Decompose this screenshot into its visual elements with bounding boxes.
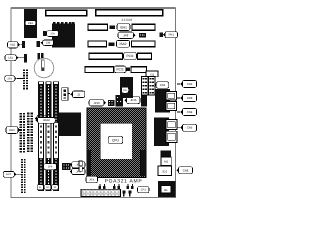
svg-text:U6: U6 xyxy=(123,89,127,92)
svg-text:PGA321 AMP: PGA321 AMP xyxy=(105,179,143,185)
leader HD1 xyxy=(19,129,22,131)
connector body CN4/CN5 xyxy=(154,118,169,147)
svg-text:JP6: JP6 xyxy=(48,166,53,169)
floppy header EXT1 xyxy=(21,159,26,193)
svg-text:ID1: ID1 xyxy=(162,169,167,173)
label PCI1 xyxy=(124,53,137,60)
crystal X1 xyxy=(37,53,40,60)
svg-text:KB2: KB2 xyxy=(10,44,15,47)
component D1 xyxy=(161,151,172,158)
svg-text:FN1: FN1 xyxy=(169,33,175,37)
label CN3 xyxy=(180,94,196,101)
svg-text:EXT: EXT xyxy=(6,173,11,176)
jumper JP16 block xyxy=(108,100,115,106)
svg-text:CN5: CN5 xyxy=(187,126,193,130)
leader LB1 xyxy=(19,57,25,59)
connector ID1 xyxy=(158,166,172,175)
port CN5 xyxy=(166,131,177,142)
svg-text:CN4: CN4 xyxy=(187,110,193,114)
label ISA1 xyxy=(117,24,130,31)
header J2 xyxy=(62,88,68,100)
label JP4 xyxy=(70,162,85,168)
pin header P1 xyxy=(23,70,28,90)
svg-text:M1: M1 xyxy=(164,160,168,164)
svg-text:LB1: LB1 xyxy=(8,57,13,60)
PCI slot row 1 xyxy=(89,53,152,59)
svg-text:CN2: CN2 xyxy=(187,82,193,86)
svg-text:HD1: HD1 xyxy=(9,128,15,132)
label EXT xyxy=(3,171,16,177)
label SM2 xyxy=(44,185,50,190)
label KB2 xyxy=(8,42,21,48)
keyboard connector KB1 xyxy=(24,9,37,38)
leader KB2 xyxy=(20,44,22,46)
SIMM slots xyxy=(38,82,59,192)
jumper J3B xyxy=(36,41,40,47)
label JP6 xyxy=(44,164,59,170)
connector body CN2/CN3 xyxy=(155,89,170,113)
label SIMM xyxy=(35,117,55,123)
leader J2 xyxy=(68,92,70,94)
label CN4 xyxy=(180,108,196,115)
svg-text:PCI2: PCI2 xyxy=(116,67,123,71)
label HD1 xyxy=(6,127,20,134)
label CPU xyxy=(108,136,122,144)
label ISA2 xyxy=(117,40,130,47)
svg-text:CN1: CN1 xyxy=(160,83,166,87)
port CN4 xyxy=(166,120,177,130)
PCI slot row 2 xyxy=(85,67,147,73)
connector B1 xyxy=(158,181,176,197)
svg-text:JP8: JP8 xyxy=(123,33,129,37)
header M1 xyxy=(161,157,171,165)
leader 2P3 xyxy=(17,78,23,80)
svg-text:KB1: KB1 xyxy=(28,22,33,25)
label 2P3 xyxy=(5,76,17,81)
svg-text:JP16: JP16 xyxy=(93,101,100,105)
ISA slot row 2 xyxy=(88,41,155,47)
label J7A xyxy=(47,31,59,37)
slot SL2 xyxy=(96,10,163,16)
battery BT1 xyxy=(34,58,54,78)
IDE header HD1 xyxy=(20,113,26,153)
svg-text:2P3: 2P3 xyxy=(7,77,12,80)
power connector PW1 xyxy=(81,189,121,196)
label KB1 xyxy=(25,21,36,26)
label CN1 xyxy=(154,82,169,88)
jumper JP6 block xyxy=(62,163,71,170)
leader CN3 xyxy=(177,97,180,99)
jumper pins xyxy=(79,161,82,166)
leader CN4 xyxy=(177,111,180,113)
label FD1 xyxy=(35,115,50,122)
capacitor C1 xyxy=(41,53,44,59)
label PCI2 xyxy=(114,66,126,73)
svg-text:JP15: JP15 xyxy=(130,98,137,102)
label JP15 xyxy=(124,97,140,104)
svg-text:26398: 26398 xyxy=(121,18,132,22)
label J3B xyxy=(41,40,54,45)
label B1 xyxy=(161,186,171,193)
label FN1 xyxy=(163,32,178,38)
svg-text:PCI1: PCI1 xyxy=(126,54,133,58)
svg-text:B1: B1 xyxy=(164,188,168,192)
label SM3 xyxy=(52,185,58,190)
port CN3 xyxy=(166,102,176,111)
chip U6 xyxy=(120,77,133,98)
label LB1 xyxy=(5,55,19,61)
svg-text:J3B: J3B xyxy=(46,42,51,45)
svg-text:SIMM: SIMM xyxy=(43,119,50,122)
bottom jumpers xyxy=(99,184,134,196)
label AT8 xyxy=(86,176,98,183)
label J2 xyxy=(70,91,85,98)
connector LB1 xyxy=(24,54,27,62)
leader CN5 xyxy=(177,127,180,129)
label CN2 xyxy=(180,80,196,87)
motherboard outline xyxy=(11,8,176,198)
CPU socket PGA321 xyxy=(87,108,146,178)
jumper JP15 block xyxy=(116,95,123,107)
label CP1 xyxy=(138,187,150,193)
jumper block right xyxy=(141,96,147,107)
svg-text:CN3: CN3 xyxy=(187,96,193,100)
connector KB2 xyxy=(22,41,25,48)
label JP8 xyxy=(118,32,136,38)
jumper JP8 block xyxy=(139,33,146,38)
svg-text:J7A: J7A xyxy=(50,32,55,35)
svg-text:CPU: CPU xyxy=(112,138,120,142)
label CN5 xyxy=(180,124,196,131)
jumper J7A dot xyxy=(43,31,46,36)
capacitor block xyxy=(52,22,75,48)
svg-text:ISA1: ISA1 xyxy=(120,25,127,29)
label JP5 xyxy=(70,168,85,174)
leader EXT xyxy=(17,173,22,175)
label JP16 xyxy=(89,100,106,106)
label SM1 xyxy=(37,185,43,190)
port CN2 xyxy=(166,91,176,100)
header J11 xyxy=(142,71,159,95)
svg-text:J11: J11 xyxy=(150,72,155,76)
label CN8 xyxy=(176,167,192,174)
slot SL1 xyxy=(46,10,87,16)
svg-text:J2: J2 xyxy=(77,92,80,96)
svg-text:AT8: AT8 xyxy=(89,178,94,181)
ISA slot row 1 xyxy=(88,24,155,30)
chip U10 xyxy=(58,113,81,137)
svg-text:CP1: CP1 xyxy=(141,189,147,192)
leader CN2 xyxy=(177,83,180,85)
IDE header HD2 xyxy=(27,113,33,152)
label U6 xyxy=(122,87,129,93)
fan header FN1 xyxy=(159,32,163,37)
svg-text:CN8: CN8 xyxy=(183,168,189,172)
svg-text:ISA2: ISA2 xyxy=(120,42,127,46)
